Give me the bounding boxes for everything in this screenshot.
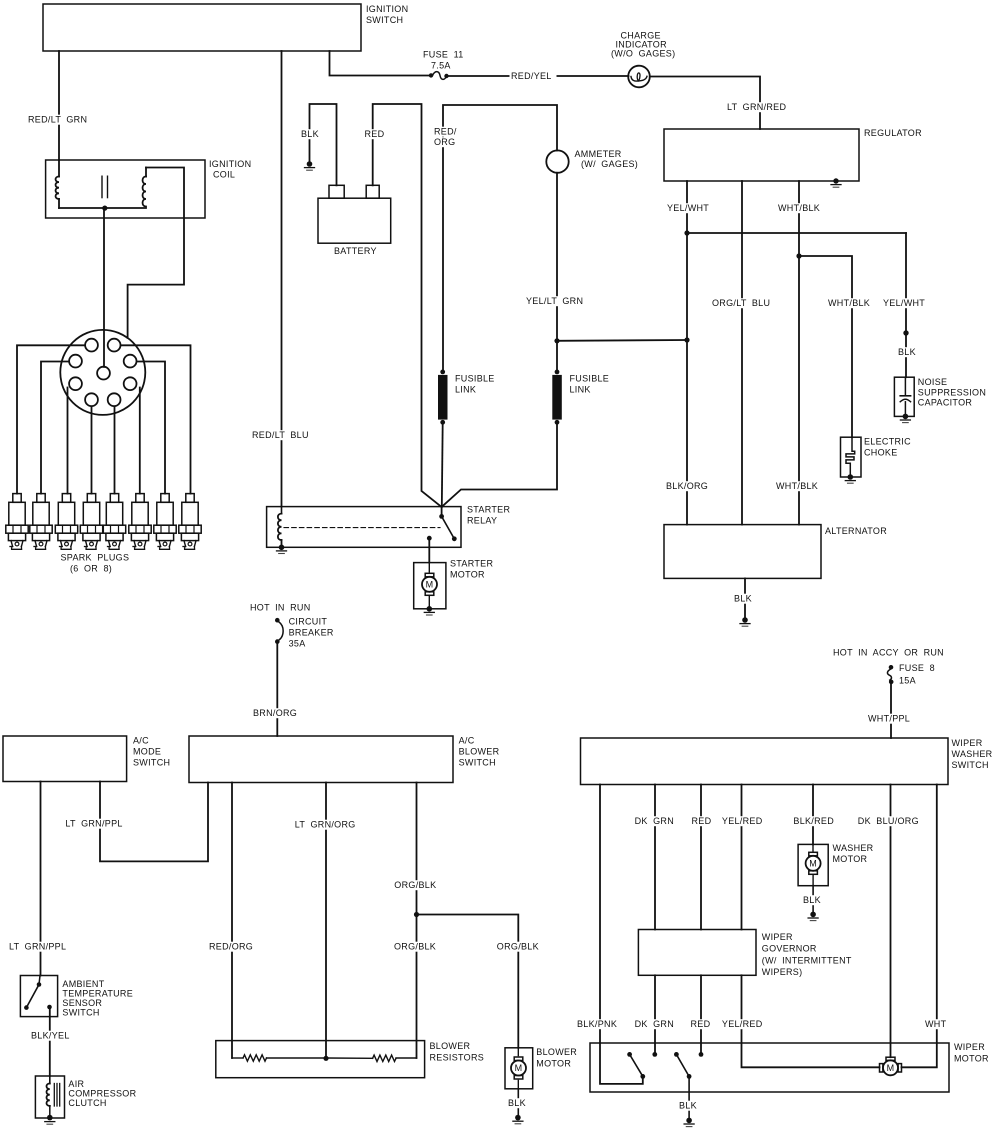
wire BLK blower motor ground (507, 1089, 529, 1118)
ground air compressor clutch (45, 1115, 55, 1124)
wire YEL/LT GRN ammeter to fusible link (525, 173, 587, 372)
svg-text:ORG/BLK: ORG/BLK (497, 942, 539, 952)
fusible link 1 (438, 370, 495, 425)
svg-text:A/C: A/C (459, 736, 475, 746)
resistor R1 (243, 1055, 267, 1061)
svg-text:MODE: MODE (133, 747, 161, 757)
svg-text:BLK: BLK (301, 129, 319, 139)
svg-text:DK BLU/ORG: DK BLU/ORG (858, 816, 919, 826)
washer motor (798, 843, 874, 886)
node DK GRN terminal (652, 1052, 657, 1057)
spark plug 5 (103, 494, 125, 550)
circuit breaker 35A (275, 617, 334, 649)
ignition coil core (102, 176, 108, 197)
svg-text:BLOWER: BLOWER (459, 747, 500, 757)
wiper governor (W/ intermittent wipers) (638, 930, 851, 978)
starter relay contact (427, 507, 457, 541)
regulator (664, 128, 922, 181)
ground wiper motor (684, 1118, 694, 1127)
svg-text:COIL: COIL (213, 170, 235, 180)
svg-text:MOTOR: MOTOR (450, 570, 485, 580)
wire coil to distributor center (103, 208, 105, 367)
wire WHT/BLK regulator to alternator (775, 181, 822, 525)
battery (318, 185, 391, 256)
wiper motor (590, 1042, 989, 1092)
resistor R2 (373, 1055, 396, 1061)
svg-text:A/C: A/C (133, 736, 149, 746)
wire coil bottom bus (59, 207, 146, 209)
svg-text:BLK/ORG: BLK/ORG (666, 481, 708, 491)
spark plug 3 (55, 494, 77, 550)
hot in run feed (250, 603, 311, 613)
svg-text:LT GRN/PPL: LT GRN/PPL (9, 942, 66, 952)
wire LT GRN/ORG blower switch to resistors (293, 783, 359, 1059)
wire distributor to spark plug 4 (91, 407, 93, 494)
ground blower motor (513, 1115, 523, 1124)
wire ignition switch to starter relay coil (251, 51, 314, 507)
svg-text:IGNITION: IGNITION (366, 4, 408, 14)
wire YEL/RED wiper switch to governor (720, 785, 764, 930)
wire BLK/PNK wiper switch to wiper motor (576, 785, 622, 1044)
svg-text:RED: RED (365, 129, 385, 139)
svg-text:GOVERNOR: GOVERNOR (762, 944, 817, 954)
ignition coil primary winding (56, 160, 59, 208)
node YEL/WHT-BLK splice (903, 330, 908, 335)
hot in accy or run feed (833, 648, 944, 658)
wire distributor to spark plug 5 (114, 407, 116, 494)
ambient temperature sensor switch (20, 976, 133, 1018)
wire WHT wiper switch to wiper motor (902, 785, 950, 1068)
wire distributor to spark plug 6 (139, 388, 141, 494)
svg-text:M: M (887, 1063, 895, 1073)
svg-text:SWITCH: SWITCH (133, 758, 170, 768)
svg-text:YEL/RED: YEL/RED (722, 816, 763, 826)
svg-text:HOT IN RUN: HOT IN RUN (250, 603, 311, 613)
wire fusible link 1 to starter relay (441, 422, 444, 507)
svg-text:ELECTRIC: ELECTRIC (864, 437, 911, 447)
svg-text:(6 OR 8): (6 OR 8) (70, 564, 112, 574)
svg-text:ORG/BLK: ORG/BLK (394, 942, 436, 952)
node WHT/BLK junction (796, 253, 801, 258)
wire RED/ORG blower switch to resistors (208, 783, 255, 1059)
electric choke (841, 437, 912, 478)
svg-text:BLK: BLK (803, 895, 821, 905)
blower resistors (216, 1041, 484, 1078)
alternator (664, 525, 887, 579)
svg-text:RED/ORG: RED/ORG (209, 942, 253, 952)
svg-text:BLK: BLK (508, 1098, 526, 1108)
svg-text:CIRCUIT: CIRCUIT (289, 617, 328, 627)
wire YEL/RED governor to wiper motor (720, 975, 879, 1067)
svg-text:BLK/YEL: BLK/YEL (31, 1031, 70, 1041)
svg-text:RED: RED (691, 1019, 711, 1029)
a/c mode switch (3, 736, 170, 782)
svg-text:WHT/BLK: WHT/BLK (778, 203, 820, 213)
spark plug 8 (179, 494, 201, 550)
svg-text:BLOWER: BLOWER (430, 1041, 471, 1051)
wiper motor armature (880, 1057, 902, 1075)
svg-text:WASHER: WASHER (952, 749, 993, 759)
svg-text:SWITCH: SWITCH (62, 1008, 99, 1018)
svg-text:YEL/RED: YEL/RED (722, 1019, 763, 1029)
svg-text:LINK: LINK (570, 385, 591, 395)
wire RED wiper switch to governor (690, 785, 713, 930)
fusible link 2 (552, 370, 609, 425)
svg-text:WIPERS): WIPERS) (762, 967, 803, 977)
ground battery BLK (305, 161, 315, 170)
wire distributor to spark plug 1 (17, 345, 85, 493)
svg-text:FUSE 8: FUSE 8 (899, 663, 935, 673)
node blower resistor center tap (323, 1056, 372, 1061)
svg-text:15A: 15A (899, 676, 916, 686)
wiper washer switch (581, 738, 993, 785)
svg-text:M: M (515, 1063, 523, 1073)
svg-text:BLK: BLK (734, 594, 752, 604)
distributor cap (60, 330, 145, 415)
svg-text:STARTER: STARTER (450, 559, 493, 569)
svg-text:ORG/LT BLU: ORG/LT BLU (712, 298, 770, 308)
svg-text:M: M (426, 580, 434, 590)
wiper motor park switch 1 (627, 1052, 645, 1079)
svg-text:(W/ GAGES): (W/ GAGES) (581, 159, 638, 169)
svg-text:7.5A: 7.5A (431, 61, 451, 71)
wire YEL/WHT to noise suppression capacitor (882, 233, 928, 377)
spark plug 7 (154, 494, 176, 550)
ground alternator BLK (740, 617, 750, 626)
svg-text:RED/LT BLU: RED/LT BLU (252, 430, 309, 440)
ground noise suppression capacitor (900, 414, 910, 423)
svg-text:RELAY: RELAY (467, 516, 497, 526)
svg-text:AMBIENT: AMBIENT (62, 979, 104, 989)
svg-text:BLK/PNK: BLK/PNK (577, 1019, 617, 1029)
svg-text:RESISTORS: RESISTORS (430, 1053, 485, 1063)
ignition coil secondary winding (143, 168, 146, 207)
fuse F8 15A (887, 663, 934, 686)
svg-text:MOTOR: MOTOR (536, 1059, 571, 1069)
svg-text:AIR: AIR (68, 1079, 84, 1089)
wire BLK/RED wiper switch to washer motor (792, 785, 836, 845)
ammeter (W/ gages) (546, 149, 638, 173)
svg-text:BLK/RED: BLK/RED (793, 816, 834, 826)
wire BLK wiper motor ground (678, 1076, 700, 1120)
wire BLK alternator ground (733, 578, 755, 620)
wire LT GRN/PPL mode to ambient switch (8, 782, 71, 985)
wire DK GRN governor to wiper motor (633, 975, 675, 1054)
svg-text:ALTERNATOR: ALTERNATOR (825, 526, 887, 536)
svg-text:WIPER: WIPER (954, 1042, 985, 1052)
svg-text:35A: 35A (289, 639, 306, 649)
svg-text:SPARK PLUGS: SPARK PLUGS (61, 553, 130, 563)
wire ORG/BLK blower switch to resistors (393, 783, 441, 1059)
svg-text:SENSOR: SENSOR (62, 998, 102, 1008)
ground starter relay coil (277, 545, 287, 554)
node ORG/BLK junction (414, 912, 419, 917)
ground washer motor (808, 912, 818, 921)
svg-text:YEL/LT GRN: YEL/LT GRN (526, 296, 583, 306)
svg-text:REGULATOR: REGULATOR (864, 128, 922, 138)
wire DK BLU/ORG wiper switch to wiper motor (856, 785, 922, 1058)
spark plug 2 (30, 494, 52, 550)
svg-text:BATTERY: BATTERY (334, 246, 377, 256)
svg-text:WHT/BLK: WHT/BLK (776, 481, 818, 491)
starter relay dashed link (284, 527, 440, 529)
svg-text:CLUTCH: CLUTCH (68, 1098, 106, 1108)
node BLK/ORG junction (684, 337, 689, 342)
wire ORG/LT BLU regulator to alternator (711, 181, 774, 525)
svg-text:SUPPRESSION: SUPPRESSION (918, 388, 986, 398)
svg-text:FUSE 11: FUSE 11 (423, 50, 464, 60)
spark plugs label (61, 553, 130, 574)
svg-text:CAPACITOR: CAPACITOR (918, 398, 973, 408)
wire RED/ORG ammeter loop (433, 105, 558, 372)
svg-text:MOTOR: MOTOR (954, 1054, 989, 1064)
svg-text:M: M (809, 859, 817, 869)
svg-text:BREAKER: BREAKER (289, 628, 334, 638)
svg-text:RED/LT GRN: RED/LT GRN (28, 115, 87, 125)
ground electric choke (845, 474, 855, 483)
wire LT GRN/RED charge indicator to regulator (650, 77, 790, 130)
starter relay coil (278, 507, 282, 548)
svg-text:LT GRN/ORG: LT GRN/ORG (295, 820, 356, 830)
charge indicator lamp (W/O gages) (611, 31, 675, 88)
wire junction to regulator branch (557, 339, 687, 342)
node RED terminal (699, 1052, 704, 1057)
a/c blower switch (189, 736, 500, 783)
wiper motor park switch 2 (674, 1052, 691, 1079)
wire WHT/BLK to electric choke (799, 256, 874, 437)
node YEL/LT GRN junction (554, 338, 559, 343)
svg-text:STARTER: STARTER (467, 505, 510, 515)
svg-text:WIPER: WIPER (952, 738, 983, 748)
wire ignition switch to fuse 11 (330, 51, 430, 76)
svg-text:RED: RED (692, 816, 712, 826)
distributor tower terminals (69, 339, 136, 406)
svg-text:YEL/WHT: YEL/WHT (667, 203, 709, 213)
svg-text:NOISE: NOISE (918, 377, 948, 387)
distributor center terminal (97, 367, 110, 380)
wire RED battery to starter relay (363, 104, 442, 507)
ignition switch (43, 4, 408, 51)
svg-text:TEMPERATURE: TEMPERATURE (62, 989, 133, 999)
svg-text:AMMETER: AMMETER (575, 149, 622, 159)
wire BLK/YEL ambient switch to compressor clutch (30, 1007, 74, 1076)
node YEL/WHT junction upper (684, 230, 689, 235)
wire YEL/WHT regulator to alternator (665, 181, 713, 525)
svg-text:BRN/ORG: BRN/ORG (253, 708, 297, 718)
ignition coil (46, 159, 252, 218)
wire distributor to spark plug 2 (41, 362, 69, 494)
svg-text:BLK: BLK (679, 1101, 697, 1111)
svg-text:WHT/PPL: WHT/PPL (868, 714, 910, 724)
wire RED/LT GRN ignition switch to coil (27, 51, 94, 160)
svg-text:BLK: BLK (898, 347, 916, 357)
svg-text:LT GRN/PPL: LT GRN/PPL (65, 819, 122, 829)
svg-text:WHT: WHT (925, 1019, 947, 1029)
wire coil secondary to distributor cap (128, 168, 184, 338)
wire BLK washer motor ground (802, 886, 824, 915)
svg-text:RED/: RED/ (434, 127, 457, 137)
starter motor (414, 559, 494, 609)
svg-text:RED/YEL: RED/YEL (511, 71, 552, 81)
ground regulator (831, 178, 841, 187)
svg-text:ORG: ORG (434, 137, 455, 147)
svg-text:IGNITION: IGNITION (209, 159, 251, 169)
air compressor clutch (35, 1076, 136, 1118)
svg-text:DK GRN: DK GRN (635, 816, 674, 826)
ground starter motor (424, 606, 434, 615)
fuse F11 7.5A (423, 50, 464, 80)
svg-text:WIPER: WIPER (762, 932, 793, 942)
spark plug 6 (129, 494, 151, 550)
svg-text:BLOWER: BLOWER (536, 1047, 577, 1057)
spark plug 4 (80, 494, 102, 550)
wire RED/YEL fuse to charge indicator (448, 71, 629, 81)
svg-text:ORG/BLK: ORG/BLK (394, 880, 436, 890)
wire BRN/ORG breaker to blower switch (252, 642, 301, 736)
wire starter relay to starter motor (428, 538, 430, 562)
svg-text:CHOKE: CHOKE (864, 448, 898, 458)
svg-text:HOT IN ACCY OR RUN: HOT IN ACCY OR RUN (833, 648, 944, 658)
svg-text:(W/ INTERMITTENT: (W/ INTERMITTENT (762, 956, 852, 966)
svg-text:SWITCH: SWITCH (366, 15, 403, 25)
svg-text:LINK: LINK (455, 385, 476, 395)
svg-text:SWITCH: SWITCH (952, 760, 989, 770)
svg-text:FUSIBLE: FUSIBLE (570, 374, 610, 384)
noise suppression capacitor (894, 377, 986, 416)
svg-text:WASHER: WASHER (833, 843, 874, 853)
starter relay (267, 505, 511, 548)
wire ORG/BLK junction to blower motor (417, 915, 539, 1048)
spark plug 1 (6, 494, 28, 550)
svg-text:(W/O GAGES): (W/O GAGES) (611, 49, 675, 59)
blower resistor wire (232, 1057, 417, 1059)
svg-text:LT GRN/RED: LT GRN/RED (727, 102, 786, 112)
svg-text:MOTOR: MOTOR (833, 854, 868, 864)
wire YEL/WHT junction to right branch (687, 232, 906, 234)
svg-text:WHT/BLK: WHT/BLK (828, 298, 870, 308)
wire RED governor to wiper motor (689, 975, 712, 1054)
svg-text:SWITCH: SWITCH (459, 758, 496, 768)
svg-text:YEL/WHT: YEL/WHT (883, 298, 925, 308)
svg-text:FUSIBLE: FUSIBLE (455, 374, 495, 384)
wire fusible link 2 to starter relay (442, 422, 557, 507)
node coil output junction (102, 206, 107, 211)
wire distributor to spark plug 8 (121, 345, 191, 493)
svg-text:COMPRESSOR: COMPRESSOR (68, 1089, 136, 1099)
wire distributor to spark plug 7 (137, 362, 165, 494)
wire LT GRN/PPL mode to blower switch (64, 782, 208, 862)
wire WHT/PPL fuse 8 to wiper switch (867, 682, 914, 738)
wire BLK battery ground (300, 104, 337, 185)
wire distributor to spark plug 3 (67, 388, 69, 494)
wire BLK/PNK inside wiper motor (600, 1043, 643, 1084)
blower motor (505, 1047, 577, 1089)
svg-text:DK GRN: DK GRN (635, 1019, 674, 1029)
wire DK GRN wiper switch to governor (633, 785, 675, 930)
